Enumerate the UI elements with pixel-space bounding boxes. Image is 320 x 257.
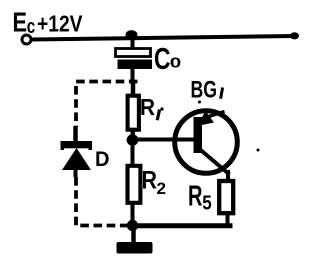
wire R2 to ground junction bbox=[131, 201, 135, 226]
terminal Ec bbox=[22, 35, 31, 44]
wire diode top stub bbox=[73, 126, 78, 143]
wire C0 to node A bbox=[131, 69, 135, 83]
capacitor C0 top plate bbox=[116, 49, 151, 57]
svg-text:C: C bbox=[154, 41, 171, 76]
resistor R1 bbox=[128, 96, 139, 130]
label Ec+12V bbox=[13, 7, 84, 39]
wire bottom (ground node to R5) bbox=[133, 223, 233, 228]
ink speck bbox=[257, 149, 260, 152]
label BG1 bbox=[191, 77, 223, 104]
label C0 bbox=[154, 41, 181, 76]
junction dot at ground node bbox=[127, 220, 138, 231]
svg-text:E: E bbox=[13, 7, 28, 38]
svg-text:2: 2 bbox=[157, 179, 166, 198]
wire base to transistor bbox=[133, 138, 195, 142]
ink speck bbox=[198, 101, 201, 104]
ground bbox=[117, 226, 153, 254]
svg-text:BG: BG bbox=[191, 77, 218, 104]
node B (base node junction dot) bbox=[127, 134, 139, 145]
dashed wire bottom-left bbox=[76, 177, 129, 226]
svg-text:R: R bbox=[188, 181, 203, 213]
diode D bbox=[61, 141, 93, 170]
ink speck bbox=[160, 107, 163, 110]
wire diode bottom stub bbox=[74, 169, 78, 177]
transistor BG1 bbox=[175, 111, 238, 175]
resistor R5 bbox=[219, 181, 233, 213]
label R1 bbox=[140, 94, 160, 120]
label R2 bbox=[142, 167, 166, 199]
wire rail to C0 bbox=[131, 37, 135, 50]
svg-text:5: 5 bbox=[202, 193, 212, 215]
emitter arrow (points toward base bar) bbox=[197, 111, 214, 126]
wire R1 to node B bbox=[131, 130, 136, 137]
capacitor C0 bottom plate bbox=[118, 60, 153, 70]
wire transistor emitter to R5 bbox=[226, 170, 230, 181]
wire: +12V rail bbox=[32, 36, 296, 40]
svg-text:0: 0 bbox=[170, 55, 182, 72]
wire R5 to bottom wire bbox=[226, 215, 230, 227]
svg-text:+12V: +12V bbox=[37, 11, 83, 37]
svg-text:D: D bbox=[95, 148, 110, 171]
svg-text:R: R bbox=[142, 167, 158, 195]
wire node B to R2 bbox=[131, 143, 135, 166]
label R5 bbox=[188, 181, 212, 215]
svg-text:R: R bbox=[140, 94, 155, 120]
dashed wire top and left bbox=[76, 82, 138, 128]
resistor R2 bbox=[128, 166, 141, 203]
node A (junction of C0, R1, dashed branch) bbox=[0, 0, 1, 1]
junction dot on rail bbox=[126, 30, 138, 39]
collector line bbox=[200, 149, 230, 175]
